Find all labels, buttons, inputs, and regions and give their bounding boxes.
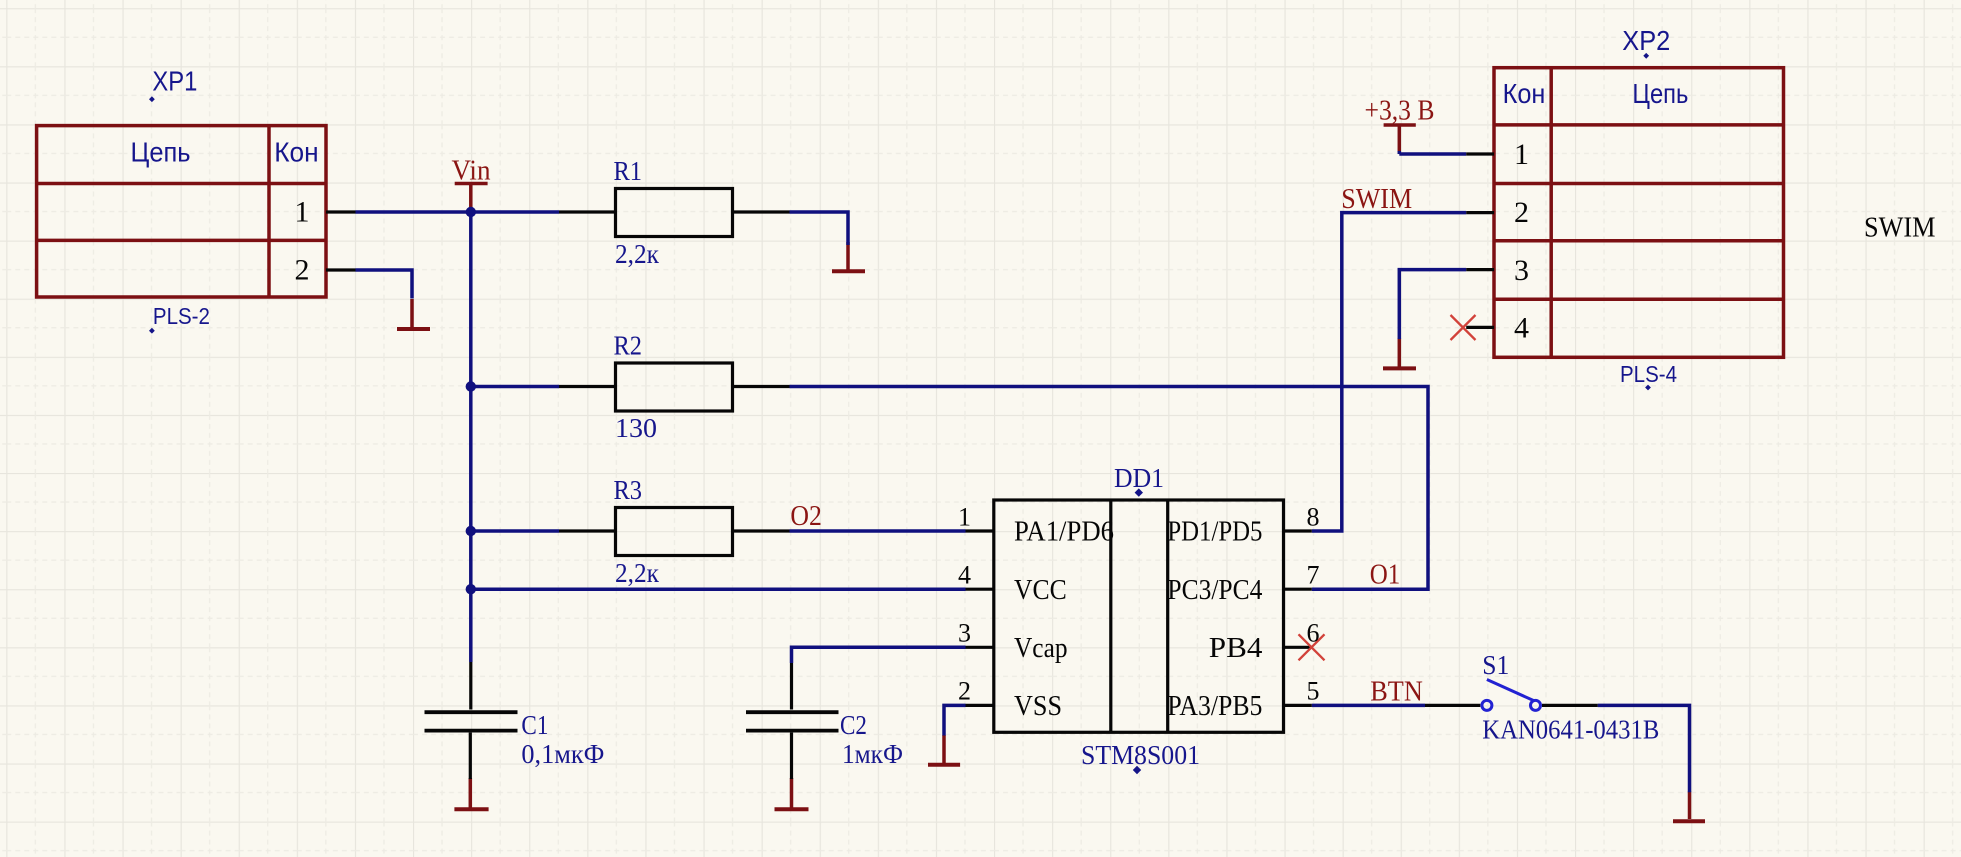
svg-text:1: 1: [1514, 138, 1529, 171]
svg-text:SWIM: SWIM: [1341, 184, 1412, 215]
svg-text:Vin: Vin: [452, 156, 491, 187]
svg-text:PA3/PB5: PA3/PB5: [1167, 690, 1262, 722]
svg-text:VSS: VSS: [1014, 690, 1062, 722]
svg-text:3: 3: [958, 619, 971, 648]
svg-text:2,2к: 2,2к: [615, 239, 660, 269]
svg-text:SWIM: SWIM: [1864, 213, 1936, 244]
svg-text:PC3/PC4: PC3/PC4: [1167, 574, 1262, 606]
svg-text:S1: S1: [1482, 650, 1509, 680]
svg-text:KAN0641-0431B: KAN0641-0431B: [1482, 715, 1659, 745]
svg-text:STM8S001: STM8S001: [1081, 740, 1200, 770]
svg-text:1мкФ: 1мкФ: [842, 739, 903, 769]
svg-text:O2: O2: [790, 501, 822, 532]
svg-text:R1: R1: [614, 156, 643, 186]
svg-text:Кон: Кон: [1503, 78, 1546, 109]
svg-text:6: 6: [1307, 619, 1320, 648]
svg-text:130: 130: [615, 413, 657, 443]
svg-text:PB4: PB4: [1209, 632, 1263, 664]
svg-text:PD1/PD5: PD1/PD5: [1167, 516, 1262, 548]
svg-text:2: 2: [958, 676, 971, 705]
svg-text:2: 2: [1514, 196, 1529, 229]
svg-text:C1: C1: [521, 710, 548, 740]
svg-text:R2: R2: [614, 330, 643, 360]
svg-text:1: 1: [295, 196, 310, 229]
svg-text:C2: C2: [840, 710, 867, 740]
svg-text:2: 2: [295, 254, 310, 287]
svg-text:2,2к: 2,2к: [615, 558, 660, 588]
svg-text:4: 4: [958, 561, 971, 590]
svg-text:BTN: BTN: [1370, 677, 1423, 708]
svg-text:O1: O1: [1370, 559, 1401, 590]
svg-text:8: 8: [1307, 503, 1320, 532]
svg-text:4: 4: [1514, 312, 1529, 345]
svg-text:DD1: DD1: [1114, 463, 1164, 493]
svg-text:XP2: XP2: [1622, 25, 1670, 56]
svg-text:R3: R3: [614, 475, 643, 505]
svg-text:+3,3 В: +3,3 В: [1365, 96, 1435, 127]
svg-text:PA1/PD6: PA1/PD6: [1014, 516, 1114, 548]
svg-text:Vcap: Vcap: [1014, 632, 1068, 664]
svg-text:0,1мкФ: 0,1мкФ: [521, 739, 604, 769]
svg-text:3: 3: [1514, 254, 1529, 287]
svg-text:PLS-4: PLS-4: [1620, 361, 1677, 387]
svg-text:Кон: Кон: [274, 137, 318, 168]
svg-text:PLS-2: PLS-2: [153, 303, 210, 329]
svg-text:VCC: VCC: [1014, 574, 1067, 606]
svg-text:Цепь: Цепь: [1632, 78, 1688, 109]
svg-text:XP1: XP1: [152, 66, 197, 97]
svg-text:5: 5: [1307, 676, 1320, 705]
svg-text:Цепь: Цепь: [131, 137, 191, 168]
svg-text:7: 7: [1307, 561, 1320, 590]
svg-text:1: 1: [958, 503, 971, 532]
